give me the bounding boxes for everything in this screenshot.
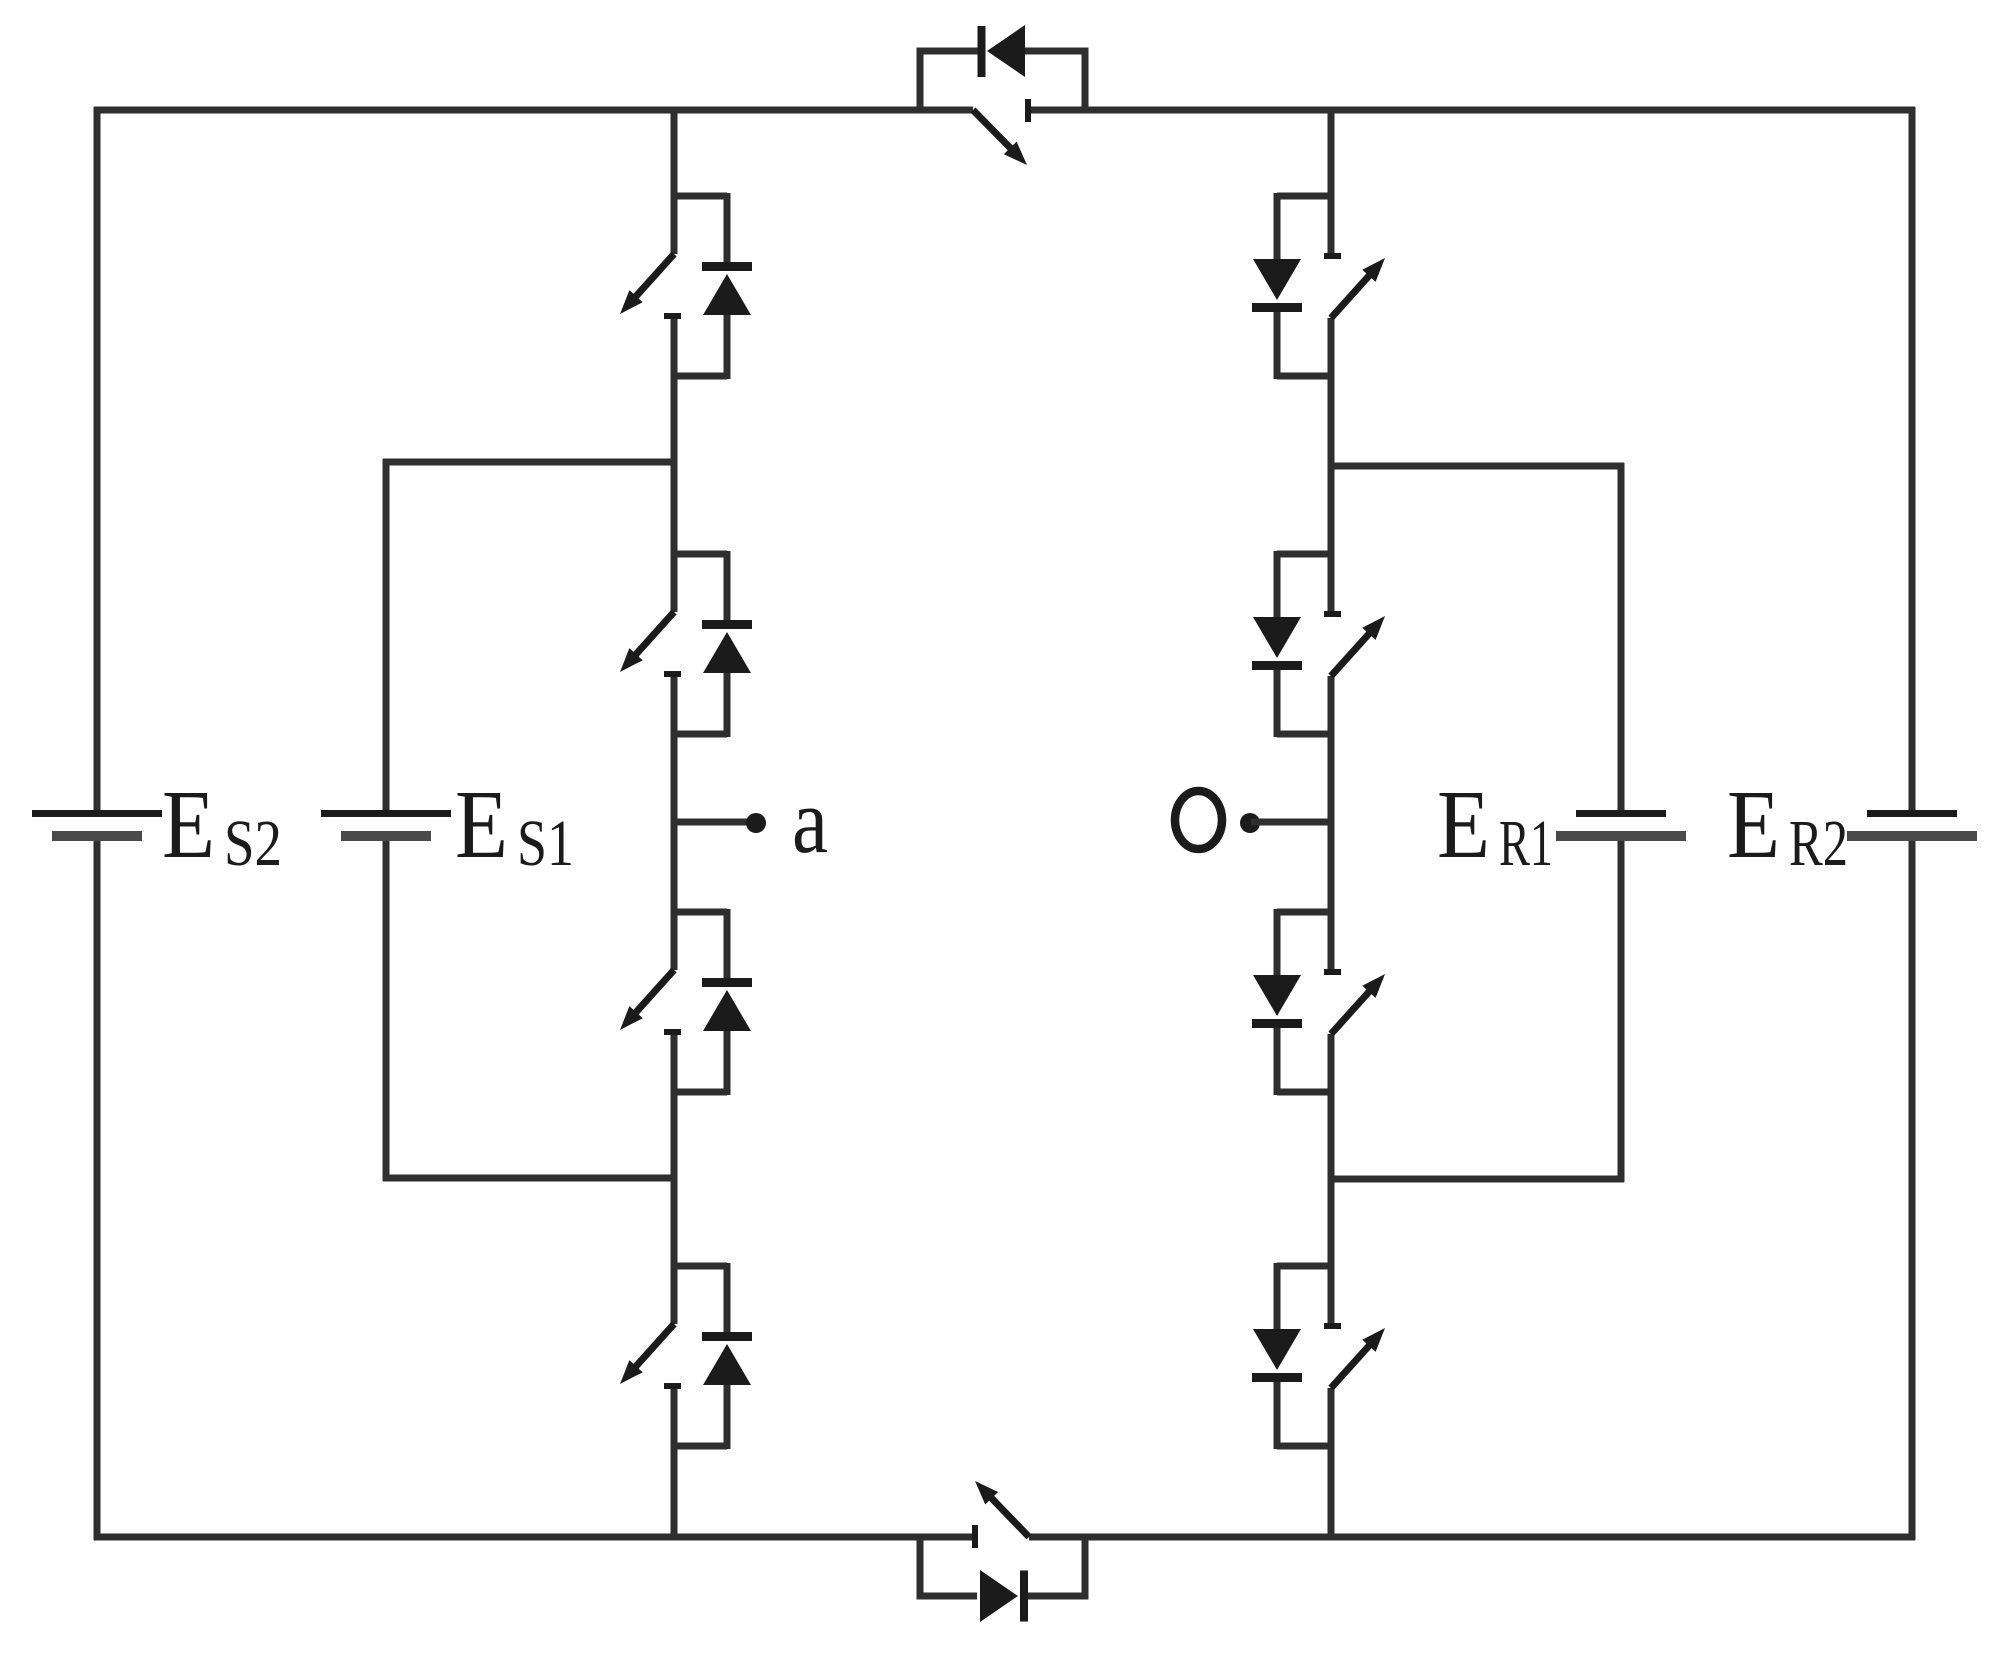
wire: cell S8 diode branch riser (upper) bbox=[1274, 1263, 1281, 1332]
battery ES1 (source inner cell) plates bbox=[321, 810, 451, 841]
wire: cell S5 diode branch riser (lower) bbox=[1274, 311, 1281, 379]
wire: inner-left loop left vertical, upper segment bbox=[383, 459, 390, 813]
wire: cell S5 bottom tie bar bbox=[1277, 373, 1334, 380]
wire: left leg vertical segment 2 bbox=[671, 315, 678, 612]
wire: inner-right loop right vertical, lower segment bbox=[1618, 836, 1625, 1182]
battery ER2 (receiving outer cell) plates bbox=[1847, 810, 1977, 841]
wire: cell S1 bottom tie bar bbox=[671, 373, 727, 380]
wire: bottom bypass loop (left riser, bottom run, right riser) bbox=[920, 1537, 1085, 1596]
wire: cell S6 diode branch riser (upper) bbox=[1274, 551, 1281, 620]
wire: outer left vertical, upper segment bbox=[94, 107, 101, 813]
wire: right leg vertical segment 2 bbox=[1328, 318, 1335, 615]
switch S7 fixed-contact tick (upper contact) bbox=[1324, 969, 1341, 975]
wire: cell S2 diode branch riser (upper) bbox=[724, 551, 731, 621]
wire: inner-left loop top run bbox=[383, 459, 674, 466]
wire: cell S4 top tie bar bbox=[671, 1263, 727, 1270]
diode D1 cathode bar (points up) bbox=[702, 262, 752, 271]
switch S5 fixed-contact tick (upper contact) bbox=[1324, 253, 1341, 259]
node a junction dot bbox=[746, 813, 766, 833]
switch S9 fixed-contact tick (top bypass right contact) bbox=[1025, 99, 1031, 122]
diode D4 triangle (points up) bbox=[703, 1344, 751, 1385]
wire: cell S5 top tie bar bbox=[1277, 193, 1334, 200]
label ES2 bbox=[162, 771, 282, 880]
svg-text:E: E bbox=[162, 771, 215, 878]
wire: cell S4 diode branch riser (upper) bbox=[724, 1263, 731, 1333]
wire: left leg vertical segment 1 bbox=[671, 107, 678, 254]
wire: inner-right loop right vertical, upper segment bbox=[1618, 463, 1625, 813]
diode D1 triangle (points up) bbox=[703, 274, 751, 315]
diode D9 triangle (top bypass, points left) bbox=[987, 25, 1025, 77]
switch S2 fixed-contact tick (lower contact) bbox=[664, 671, 681, 677]
diode D7 cathode bar (points down) bbox=[1252, 1019, 1302, 1028]
diode D10 cathode bar (bottom bypass, points right) bbox=[1020, 1571, 1028, 1622]
diode D3 cathode bar (points up) bbox=[702, 978, 752, 987]
switch S1 blade with arrow (opens down-left) bbox=[629, 254, 674, 304]
wire: right leg vertical segment 4 bbox=[1328, 1034, 1335, 1327]
wire: cell S8 diode branch riser (lower) bbox=[1274, 1381, 1281, 1449]
diode D10 triangle (bottom bypass, points right) bbox=[980, 1570, 1018, 1622]
svg-text:E: E bbox=[1727, 771, 1780, 878]
switch S5 blade with arrow (opens up-right) bbox=[1331, 268, 1376, 318]
wire: cell S7 top tie bar bbox=[1277, 909, 1334, 916]
wire: inner-right loop bottom run bbox=[1331, 1176, 1624, 1183]
switch S6 fixed-contact tick (upper contact) bbox=[1324, 611, 1341, 617]
wire: cell S2 diode branch riser (lower) bbox=[724, 671, 731, 737]
diode D6 cathode bar (points down) bbox=[1252, 661, 1302, 670]
diode D9 cathode bar (top bypass, points left) bbox=[978, 26, 986, 77]
battery ER1 (receiving inner cell) plates bbox=[1556, 810, 1686, 841]
switch S10 blade with arrow (bottom bypass, on bottom bus) bbox=[984, 1491, 1029, 1537]
wire: bottom bus, left segment (outer rectangle bottom) bbox=[94, 1534, 975, 1541]
wire: outer right vertical, lower segment bbox=[1909, 836, 1916, 1540]
wire: cell S8 bottom tie bar bbox=[1277, 1443, 1334, 1450]
wire: cell S4 diode branch riser (lower) bbox=[724, 1383, 731, 1449]
diode D3 triangle (points up) bbox=[703, 990, 751, 1031]
wire: inner-left loop bottom run bbox=[383, 1175, 674, 1182]
diode D4 cathode bar (points up) bbox=[702, 1332, 752, 1341]
wire: top bypass loop (left riser, top run, right riser) bbox=[920, 51, 1085, 110]
wire: top bus, left segment (outer rectangle top) bbox=[94, 107, 973, 114]
wire: left leg vertical segment 4 bbox=[671, 1031, 678, 1324]
label ER1 bbox=[1437, 771, 1553, 880]
battery ES2 (source outer cell) plates bbox=[32, 810, 162, 841]
wire: cell S3 bottom tie bar bbox=[671, 1089, 727, 1096]
label ES1 bbox=[455, 771, 574, 880]
switch S3 blade with arrow (opens down-left) bbox=[629, 970, 674, 1020]
diode D5 cathode bar (points down) bbox=[1252, 303, 1302, 312]
switch S3 fixed-contact tick (lower contact) bbox=[664, 1029, 681, 1035]
switch S7 blade with arrow (opens up-right) bbox=[1331, 984, 1376, 1034]
label ER2 bbox=[1727, 771, 1848, 880]
wire: left leg vertical segment 5 bbox=[671, 1385, 678, 1540]
wire: cell S7 diode branch riser (lower) bbox=[1274, 1027, 1281, 1095]
wire: right leg vertical segment 5 bbox=[1328, 1388, 1335, 1540]
label O (neutral node name) bbox=[1175, 791, 1222, 849]
svg-text:E: E bbox=[455, 771, 508, 878]
wire: bottom bus, right segment (outer rectangle bottom) bbox=[1029, 1534, 1915, 1541]
svg-text:a: a bbox=[792, 770, 828, 873]
wire: cell S2 bottom tie bar bbox=[671, 731, 727, 738]
wire: top bus, right segment (outer rectangle top) bbox=[1028, 107, 1915, 114]
wire: cell S1 diode branch riser (lower) bbox=[724, 313, 731, 379]
wire: node O stub to right leg bbox=[1251, 819, 1331, 826]
switch S9 blade with arrow (top bypass, on top bus) bbox=[973, 110, 1018, 156]
diode D8 cathode bar (points down) bbox=[1252, 1373, 1302, 1382]
wire: cell S6 bottom tie bar bbox=[1277, 731, 1334, 738]
switch S8 blade with arrow (opens up-right) bbox=[1331, 1338, 1376, 1388]
wire: cell S7 diode branch riser (upper) bbox=[1274, 909, 1281, 978]
diode D2 triangle (points up) bbox=[703, 632, 751, 673]
switch S4 blade with arrow (opens down-left) bbox=[629, 1324, 674, 1374]
switch S10 fixed-contact tick (bottom bypass left contact) bbox=[972, 1525, 978, 1548]
wire: inner-left loop left vertical, lower segment bbox=[383, 836, 390, 1181]
wire: cell S3 diode branch riser (lower) bbox=[724, 1029, 731, 1095]
wire: node a stub from left leg bbox=[674, 819, 749, 826]
wire: cell S3 top tie bar bbox=[671, 909, 727, 916]
svg-text:S1: S1 bbox=[517, 807, 574, 880]
wire: cell S8 top tie bar bbox=[1277, 1263, 1334, 1270]
switch S4 fixed-contact tick (lower contact) bbox=[664, 1383, 681, 1389]
wire: cell S6 top tie bar bbox=[1277, 551, 1334, 558]
svg-text:E: E bbox=[1437, 771, 1490, 878]
wire: cell S1 diode branch riser (upper) bbox=[724, 193, 731, 263]
diode D8 triangle (points down) bbox=[1253, 1329, 1301, 1370]
wire: cell S7 bottom tie bar bbox=[1277, 1089, 1334, 1096]
wire: left leg vertical segment 3 bbox=[671, 673, 678, 970]
svg-text:R2: R2 bbox=[1789, 807, 1848, 880]
diode D6 triangle (points down) bbox=[1253, 617, 1301, 658]
wire: cell S6 diode branch riser (lower) bbox=[1274, 669, 1281, 737]
wire: cell S1 top tie bar bbox=[671, 193, 727, 200]
node O junction dot bbox=[1240, 813, 1260, 833]
wire: right leg vertical segment 3 bbox=[1328, 676, 1335, 973]
wire: cell S3 diode branch riser (upper) bbox=[724, 909, 731, 979]
switch S6 blade with arrow (opens up-right) bbox=[1331, 626, 1376, 676]
wire: right leg vertical segment 1 bbox=[1328, 107, 1335, 257]
diode D7 triangle (points down) bbox=[1253, 975, 1301, 1016]
wire: cell S4 bottom tie bar bbox=[671, 1443, 727, 1450]
svg-text:R1: R1 bbox=[1499, 807, 1553, 880]
wire: inner-right loop top run bbox=[1331, 463, 1624, 470]
switch S1 fixed-contact tick (lower contact) bbox=[664, 313, 681, 319]
diode D5 triangle (points down) bbox=[1253, 259, 1301, 300]
switch S2 blade with arrow (opens down-left) bbox=[629, 612, 674, 662]
wire: cell S2 top tie bar bbox=[671, 551, 727, 558]
svg-text:S2: S2 bbox=[224, 807, 282, 880]
wire: outer left vertical, lower segment bbox=[94, 836, 101, 1540]
diode D2 cathode bar (points up) bbox=[702, 620, 752, 629]
switch S8 fixed-contact tick (upper contact) bbox=[1324, 1323, 1341, 1329]
wire: outer right vertical, upper segment bbox=[1909, 107, 1916, 813]
wire: cell S5 diode branch riser (upper) bbox=[1274, 193, 1281, 262]
